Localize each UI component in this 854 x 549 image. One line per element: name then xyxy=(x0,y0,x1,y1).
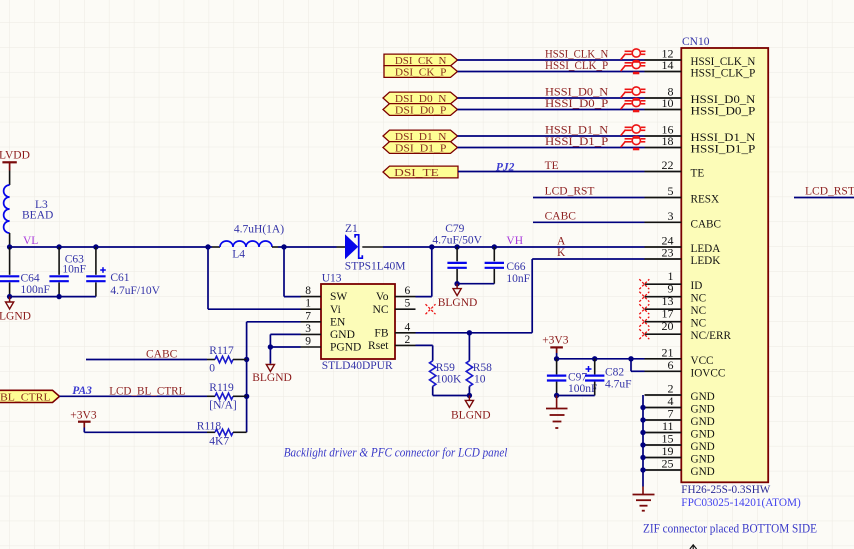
svg-text:TE: TE xyxy=(691,168,705,180)
svg-text:HSSI_D1_P: HSSI_D1_P xyxy=(691,144,756,156)
net label K xyxy=(557,247,566,259)
svg-text:GND: GND xyxy=(691,416,715,428)
svg-text:FPC03025-14201(ATOM): FPC03025-14201(ATOM) xyxy=(681,495,801,509)
svg-text:NC: NC xyxy=(691,293,707,305)
svg-text:4.7uF: 4.7uF xyxy=(605,379,632,391)
wire C82 bottom to C97 xyxy=(557,395,595,397)
pin 2 GND xyxy=(645,382,715,404)
svg-text:FH26-25S-0.3SHW: FH26-25S-0.3SHW xyxy=(681,482,771,496)
wire TE net xyxy=(458,171,645,173)
resistor R58 xyxy=(466,361,492,387)
svg-text:HSSI_D0_N: HSSI_D0_N xyxy=(691,94,756,106)
net label HSSI_D0_P xyxy=(545,98,608,110)
pin 1 Vi xyxy=(301,298,341,316)
svg-text:SW: SW xyxy=(330,291,347,303)
capacitor C61 polarized xyxy=(86,247,160,297)
svg-text:RESX: RESX xyxy=(691,194,720,206)
svg-text:C66: C66 xyxy=(506,261,525,273)
text Backlight driver caption xyxy=(284,446,508,460)
svg-text:DSI_CK_P: DSI_CK_P xyxy=(395,67,447,78)
no-connect cross pin 20 xyxy=(639,329,649,339)
svg-text:GND: GND xyxy=(691,466,715,478)
svg-text:TE: TE xyxy=(545,160,559,172)
pin 8 HSSI_D0_N xyxy=(645,85,756,107)
pin 14 HSSI_CLK_P xyxy=(645,58,756,80)
svg-text:GND: GND xyxy=(691,429,715,441)
svg-text:LCD_BL_CTRL: LCD_BL_CTRL xyxy=(109,386,185,398)
port DSI_CK_P xyxy=(384,66,458,79)
net label VL xyxy=(23,235,38,247)
svg-text:100K: 100K xyxy=(436,373,462,385)
svg-text:STLD40DPUR: STLD40DPUR xyxy=(322,360,393,372)
wire Vo to rail xyxy=(416,247,432,297)
wire HSSI_CLK_P net xyxy=(458,71,645,73)
text ZIF connector placed BOTTOM SIDE xyxy=(643,521,817,535)
pin 8 SW xyxy=(301,285,348,303)
svg-text:BLGND: BLGND xyxy=(451,410,491,422)
svg-text:HSSI_D1_N: HSSI_D1_N xyxy=(545,125,609,137)
svg-text:A: A xyxy=(557,235,566,247)
port DSI_D0_N xyxy=(383,92,458,105)
svg-text:0: 0 xyxy=(209,362,215,374)
svg-text:PJ2: PJ2 xyxy=(496,161,515,173)
wire +3V3 to R118 xyxy=(84,428,215,433)
no-connect cross pin 1 xyxy=(639,279,649,289)
differential pair marker HSSI_D0_P xyxy=(621,98,646,111)
svg-text:HSSI_CLK_N: HSSI_CLK_N xyxy=(691,56,756,68)
svg-text:LVDD: LVDD xyxy=(0,150,30,162)
pin 12 HSSI_CLK_N xyxy=(645,47,756,69)
svg-text:LEDA: LEDA xyxy=(691,243,721,255)
svg-text:4K7: 4K7 xyxy=(209,435,229,447)
svg-text:7: 7 xyxy=(305,310,311,322)
node SW branch junction xyxy=(281,244,286,249)
pin 9 NC xyxy=(645,282,707,305)
net label LCD_RST xyxy=(545,186,595,198)
wire HSSI_D0_P net xyxy=(458,109,645,111)
svg-text:4: 4 xyxy=(405,321,411,333)
ground earth at CN10 xyxy=(633,487,655,511)
pin 7 EN xyxy=(301,310,347,328)
pin 2 Rset xyxy=(368,334,415,352)
svg-text:BLGND: BLGND xyxy=(438,297,478,309)
svg-text:HSSI_D0_N: HSSI_D0_N xyxy=(545,87,609,99)
node C79 bottom junction xyxy=(454,281,459,286)
wire Z1 to LEDA pin 24 xyxy=(362,246,644,248)
wire HSSI_CLK_N net xyxy=(458,59,645,61)
wire LCD_RST net xyxy=(533,197,645,199)
power port +3V3 left xyxy=(70,410,97,428)
ground BLGND at U13 xyxy=(252,365,292,385)
svg-text:VL: VL xyxy=(23,235,38,247)
wire Vi to rail xyxy=(208,247,301,309)
pin 3 GND xyxy=(301,323,355,341)
wire L4 to Z1 xyxy=(272,246,345,248)
node C97 bottom junction xyxy=(554,393,559,398)
ground BLGND at R58 xyxy=(451,396,491,422)
inductor L3 xyxy=(4,185,54,233)
svg-text:LCD_RST: LCD_RST xyxy=(805,186,854,198)
svg-text:10nF: 10nF xyxy=(62,264,86,276)
svg-text:100nF: 100nF xyxy=(21,284,50,296)
svg-text:HSSI_CLK_N: HSSI_CLK_N xyxy=(545,49,609,61)
svg-text:DSI_D0_P: DSI_D0_P xyxy=(395,105,447,116)
svg-text:22: 22 xyxy=(662,158,674,172)
port DSI_D0_P xyxy=(383,104,458,117)
ground LGND xyxy=(0,297,31,323)
wire GND bus xyxy=(642,395,644,487)
node FB junction xyxy=(467,330,472,335)
svg-text:CABC: CABC xyxy=(146,348,178,360)
svg-text:+3V3: +3V3 xyxy=(70,410,97,422)
svg-text:PGND: PGND xyxy=(330,342,361,354)
net label HSSI_D1_P xyxy=(545,136,608,148)
svg-text:6: 6 xyxy=(405,285,411,297)
differential pair marker HSSI_D0_N xyxy=(621,87,646,100)
resistor R119 xyxy=(209,382,246,412)
svg-text:LGND: LGND xyxy=(0,311,31,323)
net label PJ2 xyxy=(496,161,515,173)
svg-text:C97: C97 xyxy=(568,372,587,384)
node PGND junction xyxy=(268,344,273,349)
pin 11 GND xyxy=(645,419,715,441)
svg-text:DSI_TE: DSI_TE xyxy=(394,168,439,179)
svg-text:BLGND: BLGND xyxy=(252,372,292,384)
svg-text:[N/A]: [N/A] xyxy=(209,399,236,411)
capacitor C63 xyxy=(49,247,86,297)
text FPC03025-14201(ATOM) xyxy=(681,495,801,509)
svg-text:8: 8 xyxy=(305,285,311,297)
wire VL rail xyxy=(10,246,220,248)
svg-text:4.7uF/50V: 4.7uF/50V xyxy=(432,234,482,246)
svg-text:HSSI_CLK_P: HSSI_CLK_P xyxy=(691,68,756,80)
svg-text:25: 25 xyxy=(662,457,674,471)
svg-text:2: 2 xyxy=(405,334,411,346)
svg-text:GND: GND xyxy=(330,329,355,341)
inductor L4 xyxy=(220,224,284,261)
wire HSSI_D0_N net xyxy=(458,97,645,99)
capacitor C64 xyxy=(0,247,50,297)
wire R58 top xyxy=(468,333,470,361)
wire VCC rail xyxy=(557,353,645,359)
net label CABC left xyxy=(146,348,178,360)
wire EN vertical bus xyxy=(247,322,301,433)
net label HSSI_CLK_N xyxy=(545,49,609,61)
svg-text:Vi: Vi xyxy=(330,304,341,316)
svg-text:4.7uH(1A): 4.7uH(1A) xyxy=(234,224,284,236)
wire cap bottoms to LGND xyxy=(10,296,96,298)
svg-text:EN: EN xyxy=(330,316,346,328)
wire FB net to LEDK xyxy=(416,259,645,333)
svg-text:R118: R118 xyxy=(197,421,222,433)
svg-text:LEDK: LEDK xyxy=(691,255,721,267)
svg-text:NC: NC xyxy=(373,304,389,316)
no-connect cross pin 13 xyxy=(639,304,649,314)
differential pair marker HSSI_CLK_N xyxy=(621,49,646,62)
power symbol arrow bottom xyxy=(690,545,697,549)
svg-text:CABC: CABC xyxy=(545,211,577,223)
pin 4 FB xyxy=(374,321,415,339)
svg-text:U13: U13 xyxy=(322,272,342,284)
svg-text:20: 20 xyxy=(662,319,674,333)
power port LVDD xyxy=(0,150,30,171)
net label TE xyxy=(545,160,559,172)
wire LCD_BL_CTRL net xyxy=(60,395,216,397)
svg-text:R117: R117 xyxy=(209,345,234,357)
svg-text:FB: FB xyxy=(374,327,388,339)
svg-text:IOVCC: IOVCC xyxy=(691,367,726,379)
net label HSSI_CLK_P xyxy=(545,60,608,72)
ground earth at C97 xyxy=(546,396,568,429)
svg-text:Vo: Vo xyxy=(376,291,389,303)
svg-text:STPS1L40M: STPS1L40M xyxy=(345,261,406,273)
wire CABC to pin 3 xyxy=(533,221,645,223)
svg-text:BEAD: BEAD xyxy=(22,210,53,222)
pin 17 NC xyxy=(645,307,707,330)
capacitor C82 polarized xyxy=(585,359,632,396)
svg-text:3: 3 xyxy=(668,209,674,223)
capacitor C66 xyxy=(485,247,530,285)
no-connect cross at pin 5 xyxy=(426,304,436,314)
resistor R59 xyxy=(430,361,462,387)
svg-text:10nF: 10nF xyxy=(506,273,530,285)
svg-text:5: 5 xyxy=(668,184,674,198)
wire L3 to VL rail xyxy=(9,233,11,247)
wire C79-C66 bottoms xyxy=(457,283,494,285)
svg-text:CN10: CN10 xyxy=(682,36,710,48)
svg-text:NC: NC xyxy=(691,318,707,330)
svg-text:HSSI_D0_P: HSSI_D0_P xyxy=(545,98,608,110)
net label VH xyxy=(506,235,523,247)
svg-text:C64: C64 xyxy=(21,273,40,285)
pin 24 LEDA xyxy=(645,234,721,256)
pin 15 GND xyxy=(645,432,715,454)
svg-text:C61: C61 xyxy=(110,272,129,284)
svg-text:GND: GND xyxy=(691,404,715,416)
svg-text:C79: C79 xyxy=(445,223,464,235)
svg-text:4.7uF/10V: 4.7uF/10V xyxy=(110,285,160,297)
svg-text:6: 6 xyxy=(668,358,674,372)
svg-text:+3V3: +3V3 xyxy=(542,335,569,347)
net label LCD_RST right xyxy=(805,186,854,198)
power port +3V3 right xyxy=(542,335,569,353)
pin 19 GND xyxy=(645,444,715,466)
net label A xyxy=(557,235,566,247)
pin 20 NC/ERR xyxy=(645,319,732,342)
no-connect cross pin 17 xyxy=(639,317,649,327)
wire SW to rail xyxy=(284,247,301,297)
svg-text:VCC: VCC xyxy=(691,355,714,367)
net label HSSI_D0_N xyxy=(545,87,609,99)
svg-text:Z1: Z1 xyxy=(345,223,358,235)
net label LCD_BL_CTRL xyxy=(109,386,185,398)
svg-text:BL_CTRL: BL_CTRL xyxy=(0,392,51,403)
differential pair marker HSSI_D1_P xyxy=(621,136,646,149)
node VL junctions xyxy=(7,244,211,249)
svg-text:HSSI_D1_P: HSSI_D1_P xyxy=(545,136,608,148)
port DSI_D1_P xyxy=(383,142,458,155)
svg-text:ZIF connector placed BOTTOM SI: ZIF connector placed BOTTOM SIDE xyxy=(643,521,817,535)
svg-text:HSSI_CLK_P: HSSI_CLK_P xyxy=(545,60,608,72)
svg-text:10: 10 xyxy=(474,373,486,385)
port DSI_TE xyxy=(383,166,458,179)
wire HSSI_D1_P net xyxy=(458,147,645,149)
resistor R118 xyxy=(197,421,247,448)
pin 6 Vo xyxy=(376,285,416,303)
pin 5 NC xyxy=(373,298,416,316)
pin 6 IOVCC xyxy=(645,358,726,380)
node GND bus junctions xyxy=(640,405,645,473)
svg-text:R59: R59 xyxy=(436,362,455,374)
port BL_CTRL xyxy=(0,390,60,403)
svg-text:R58: R58 xyxy=(473,362,492,374)
svg-text:DSI_D1_P: DSI_D1_P xyxy=(395,143,447,154)
pin 21 VCC xyxy=(645,345,714,367)
pin 5 RESX xyxy=(645,184,720,206)
resistor R117 xyxy=(209,345,246,374)
svg-text:LCD_RST: LCD_RST xyxy=(545,186,595,198)
no-connect cross pin 9 xyxy=(639,292,649,302)
wire Rset to R59 xyxy=(416,345,433,360)
ground BLGND at C79 xyxy=(438,284,478,309)
capacitor C79 xyxy=(432,223,482,284)
pin 10 HSSI_D0_P xyxy=(645,96,756,118)
svg-text:9: 9 xyxy=(305,336,311,348)
svg-text:NC/ERR: NC/ERR xyxy=(691,330,732,342)
wire GND PGND to ground xyxy=(270,334,300,363)
diode Z1 STPS1L40M xyxy=(345,223,406,273)
node cap ground junctions xyxy=(7,294,62,299)
svg-text:C82: C82 xyxy=(605,367,624,379)
svg-text:3: 3 xyxy=(305,323,311,335)
pin 22 TE xyxy=(645,158,705,180)
svg-text:HSSI_D0_P: HSSI_D0_P xyxy=(691,106,756,118)
pin 13 NC xyxy=(645,294,707,317)
capacitor C97 xyxy=(547,359,598,396)
svg-text:10: 10 xyxy=(662,96,674,110)
differential pair marker HSSI_CLK_P xyxy=(621,60,646,73)
wire LVDD to L3 xyxy=(9,171,11,186)
svg-text:Backlight driver & PFC connect: Backlight driver & PFC connector for LCD… xyxy=(284,446,508,460)
text FH26-25S-0.3SHW xyxy=(681,482,771,496)
pin 23 LEDK xyxy=(645,246,721,268)
port DSI_CK_N xyxy=(384,54,458,67)
pin 3 CABC xyxy=(645,209,721,231)
connector CN10 body xyxy=(681,36,768,482)
wire LCD_RST right stub xyxy=(794,197,854,199)
net label PA3 xyxy=(72,385,92,397)
svg-text:HSSI_D1_N: HSSI_D1_N xyxy=(691,132,756,144)
wire IOVCC branch xyxy=(631,359,645,372)
pin 1 ID xyxy=(645,269,703,292)
wire resistor bottoms xyxy=(433,386,470,395)
pin 7 GND xyxy=(645,407,715,429)
svg-text:23: 23 xyxy=(662,246,674,260)
node rail junctions after Z1 xyxy=(429,244,497,249)
pin 16 HSSI_D1_N xyxy=(645,123,756,145)
port DSI_D1_N xyxy=(383,130,458,143)
pin 25 GND xyxy=(645,457,715,479)
svg-text:18: 18 xyxy=(662,134,674,148)
svg-text:100nF: 100nF xyxy=(568,383,597,395)
svg-text:NC: NC xyxy=(691,305,707,317)
node EN bus junctions xyxy=(244,357,249,399)
op-amp U13 STLD40DPUR body xyxy=(321,272,395,372)
wire HSSI_D1_N net xyxy=(458,135,645,137)
svg-text:R119: R119 xyxy=(209,382,234,394)
svg-text:Rset: Rset xyxy=(368,340,389,352)
node R58 bottom junction xyxy=(467,393,472,398)
svg-text:ID: ID xyxy=(691,280,703,292)
net label CABC right xyxy=(545,211,577,223)
pin 18 HSSI_D1_P xyxy=(645,134,756,156)
svg-text:PA3: PA3 xyxy=(72,385,92,397)
pin 9 PGND xyxy=(301,336,362,354)
svg-text:GND: GND xyxy=(691,441,715,453)
svg-text:K: K xyxy=(557,247,566,259)
svg-text:1: 1 xyxy=(305,298,311,310)
svg-text:L4: L4 xyxy=(232,248,245,260)
node VCC junctions xyxy=(554,356,634,361)
svg-text:GND: GND xyxy=(691,391,715,403)
svg-text:14: 14 xyxy=(662,58,674,72)
svg-text:CABC: CABC xyxy=(691,218,721,230)
differential pair marker HSSI_D1_N xyxy=(621,125,646,138)
net label HSSI_D1_N xyxy=(545,125,609,137)
svg-text:5: 5 xyxy=(405,298,411,310)
wire CABC net xyxy=(86,359,215,361)
svg-text:VH: VH xyxy=(506,235,523,247)
pin 4 GND xyxy=(645,394,715,416)
svg-text:GND: GND xyxy=(691,454,715,466)
